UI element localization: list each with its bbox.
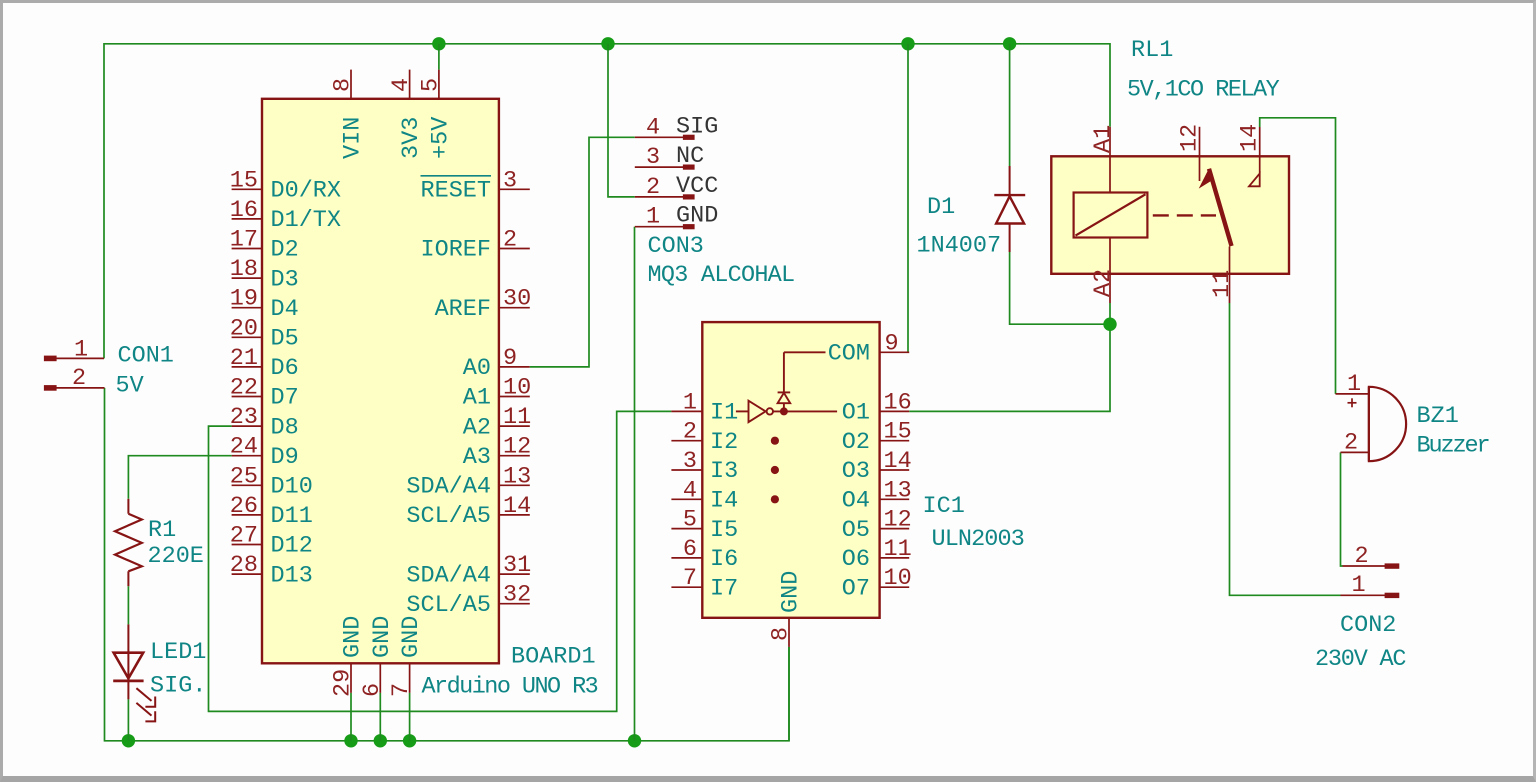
svg-text:RL1: RL1 bbox=[1131, 37, 1173, 64]
svg-text:23: 23 bbox=[230, 404, 258, 431]
BOARD1 pin 14 SCL/A5 bbox=[406, 493, 531, 530]
BOARD1 pin 19 D4 bbox=[230, 286, 299, 323]
svg-text:O5: O5 bbox=[842, 517, 870, 544]
svg-text:BZ1: BZ1 bbox=[1417, 403, 1459, 430]
wire GND pins 29/6/7 to bus bbox=[350, 693, 352, 741]
wire 5V bus to CON3 VCC bbox=[608, 44, 635, 197]
svg-text:GND: GND bbox=[340, 616, 367, 658]
svg-text:CON2: CON2 bbox=[1340, 612, 1396, 639]
relay RL1 pin A1 bbox=[1090, 125, 1117, 193]
junction bbox=[122, 734, 135, 747]
svg-text:6: 6 bbox=[359, 683, 386, 697]
svg-text:D0/RX: D0/RX bbox=[271, 178, 342, 205]
svg-text:2: 2 bbox=[1354, 543, 1368, 570]
IC1 pin 16 O1 bbox=[842, 389, 912, 426]
svg-text:LED1: LED1 bbox=[150, 639, 206, 666]
svg-text:12: 12 bbox=[1177, 124, 1204, 152]
svg-text:O3: O3 bbox=[842, 458, 870, 485]
svg-text:GND: GND bbox=[676, 203, 718, 230]
svg-text:15: 15 bbox=[884, 419, 912, 446]
wire relay pin 14 to buzzer BZ1 pin 1 bbox=[1260, 118, 1336, 394]
svg-text:D4: D4 bbox=[271, 296, 299, 323]
svg-text:Buzzer: Buzzer bbox=[1417, 433, 1489, 460]
IC1 pin 3 I3 bbox=[671, 448, 738, 485]
BOARD1 pin 12 A3 bbox=[463, 434, 531, 471]
svg-text:IOREF: IOREF bbox=[420, 237, 491, 264]
relay RL1 dashed actuator line bbox=[1147, 214, 1216, 216]
svg-text:1N4007: 1N4007 bbox=[917, 233, 1002, 260]
svg-text:AREF: AREF bbox=[435, 296, 491, 323]
svg-text:SIG: SIG bbox=[676, 113, 718, 140]
BOARD1 pin 27 D12 bbox=[230, 523, 313, 560]
svg-text:6: 6 bbox=[683, 536, 697, 563]
BOARD1 pin 9 A0 bbox=[463, 345, 530, 382]
svg-text:SIG.: SIG. bbox=[150, 673, 206, 700]
connector CON1 pin 1 bbox=[45, 337, 105, 364]
svg-text:+5V: +5V bbox=[427, 117, 454, 159]
svg-text:3: 3 bbox=[683, 448, 697, 475]
BOARD1 pin 28 D13 bbox=[230, 552, 313, 589]
svg-text:O2: O2 bbox=[842, 429, 870, 456]
svg-text:1: 1 bbox=[74, 337, 88, 364]
svg-text:GND: GND bbox=[778, 571, 805, 613]
LED LED1 SIG. bbox=[113, 624, 206, 721]
BOARD1 pin 15 D0/RX bbox=[230, 167, 341, 204]
wire D1 anode to coil node bbox=[1010, 252, 1110, 324]
connector CON2 pin 1 bbox=[1341, 572, 1399, 599]
BZ1 pin 1 + bbox=[1336, 371, 1369, 407]
junction bbox=[432, 37, 445, 50]
junction bbox=[344, 734, 357, 747]
BOARD1 pin 22 D7 bbox=[230, 375, 299, 412]
svg-text:31: 31 bbox=[503, 552, 531, 579]
svg-text:SDA/A4: SDA/A4 bbox=[406, 474, 491, 501]
svg-text:13: 13 bbox=[884, 477, 912, 504]
svg-text:15: 15 bbox=[230, 167, 258, 194]
connector CON3 pin 2 VCC bbox=[635, 173, 719, 201]
svg-text:11: 11 bbox=[503, 404, 531, 431]
+5V top bus wire bbox=[104, 44, 1110, 359]
BOARD1 pin 2 IOREF bbox=[420, 227, 529, 264]
BOARD1 pin 30 AREF bbox=[435, 286, 532, 323]
svg-text:RESET: RESET bbox=[420, 178, 491, 205]
IC1 pin 5 I5 bbox=[671, 507, 738, 544]
svg-text:18: 18 bbox=[230, 256, 258, 283]
BOARD1 pin 32 SCL/A5 bbox=[406, 582, 531, 619]
IC1 pin 4 I4 bbox=[671, 477, 738, 514]
connector CON3 pin 1 GND bbox=[635, 203, 719, 231]
svg-text:A0: A0 bbox=[463, 355, 491, 382]
IC1 internal driver symbol bbox=[736, 352, 837, 422]
GND bottom bus wire bbox=[105, 388, 790, 741]
svg-text:O6: O6 bbox=[842, 546, 870, 573]
svg-text:21: 21 bbox=[230, 345, 258, 372]
svg-text:5: 5 bbox=[417, 78, 444, 92]
junction bbox=[1003, 37, 1016, 50]
BOARD1 pin 16 D1/TX bbox=[230, 197, 341, 234]
svg-text:IC1: IC1 bbox=[923, 493, 965, 520]
BOARD1 pin 7 GND bbox=[388, 616, 425, 697]
wire 5V bus to D1 cathode bbox=[1009, 44, 1011, 166]
svg-text:1: 1 bbox=[1351, 572, 1365, 599]
wire A0 to CON3 SIG bbox=[530, 137, 635, 367]
svg-text:O7: O7 bbox=[842, 575, 870, 602]
svg-text:D13: D13 bbox=[271, 562, 313, 589]
BOARD1 pin 17 D2 bbox=[230, 227, 299, 264]
svg-text:D9: D9 bbox=[271, 444, 299, 471]
svg-text:MQ3 ALCOHAL: MQ3 ALCOHAL bbox=[648, 262, 795, 289]
relay RL1 body bbox=[1051, 156, 1289, 273]
svg-text:2: 2 bbox=[683, 419, 697, 446]
BOARD1 pin 13 SDA/A4 bbox=[406, 463, 531, 500]
svg-text:CON3: CON3 bbox=[648, 233, 704, 260]
svg-text:D10: D10 bbox=[271, 474, 313, 501]
relay RL1 coil bbox=[1074, 193, 1148, 238]
svg-text:27: 27 bbox=[230, 523, 258, 550]
svg-text:I4: I4 bbox=[710, 488, 738, 515]
IC1 pin 9 COM bbox=[828, 330, 910, 367]
svg-text:12: 12 bbox=[503, 434, 531, 461]
relay RL1 pin 14 contact bbox=[1237, 124, 1264, 187]
BOARD1 pin 8 VIN bbox=[330, 70, 367, 159]
svg-text:14: 14 bbox=[884, 448, 912, 475]
wire CON3 GND to bus bbox=[634, 227, 636, 741]
svg-text:19: 19 bbox=[230, 286, 258, 313]
svg-text:10: 10 bbox=[884, 565, 912, 592]
svg-text:17: 17 bbox=[230, 227, 258, 254]
wire relay pin 11 to CON2 pin 1 bbox=[1230, 303, 1341, 595]
svg-text:D3: D3 bbox=[271, 266, 299, 293]
BOARD1 pin 31 SDA/A4 bbox=[406, 552, 531, 589]
svg-text:2: 2 bbox=[646, 174, 660, 201]
svg-text:5V: 5V bbox=[116, 373, 144, 400]
BOARD1 pin 25 D10 bbox=[230, 463, 313, 500]
IC1 pin 2 I2 bbox=[671, 419, 738, 456]
svg-text:4: 4 bbox=[683, 477, 697, 504]
svg-text:24: 24 bbox=[230, 434, 258, 461]
relay RL1 switch arm bbox=[1200, 169, 1231, 246]
svg-text:SDA/A4: SDA/A4 bbox=[406, 562, 491, 589]
svg-text:12: 12 bbox=[884, 507, 912, 534]
svg-text:NC: NC bbox=[676, 143, 704, 170]
junction bbox=[374, 734, 387, 747]
svg-text:ULN2003: ULN2003 bbox=[932, 526, 1024, 553]
wire relay A2 to node bbox=[1109, 303, 1111, 324]
wire ULN2003 O1 to relay A2 bbox=[909, 324, 1110, 411]
resistor R1 220E bbox=[115, 499, 204, 587]
IC1 pin 15 O2 bbox=[842, 419, 912, 456]
junction bbox=[901, 37, 914, 50]
junction bbox=[628, 734, 641, 747]
svg-text:Arduino UNO R3: Arduino UNO R3 bbox=[422, 674, 598, 701]
svg-text:7: 7 bbox=[388, 683, 415, 697]
svg-text:1: 1 bbox=[683, 389, 697, 416]
svg-text:2: 2 bbox=[503, 227, 517, 254]
svg-text:3V3: 3V3 bbox=[398, 117, 425, 159]
BOARD1 pin 24 D9 bbox=[230, 434, 299, 471]
svg-text:I7: I7 bbox=[710, 575, 738, 602]
wire LED1 cathode to GND bus bbox=[127, 699, 129, 740]
svg-text:A3: A3 bbox=[463, 444, 491, 471]
svg-text:SCL/A5: SCL/A5 bbox=[406, 592, 491, 619]
svg-text:I1: I1 bbox=[710, 400, 738, 427]
svg-text:3: 3 bbox=[503, 167, 517, 194]
junction bbox=[403, 734, 416, 747]
svg-text:11: 11 bbox=[1209, 270, 1236, 298]
svg-text:GND: GND bbox=[369, 616, 396, 658]
svg-text:5: 5 bbox=[683, 507, 697, 534]
svg-text:20: 20 bbox=[230, 315, 258, 342]
svg-text:VCC: VCC bbox=[676, 173, 718, 200]
svg-text:COM: COM bbox=[828, 341, 870, 368]
svg-text:D12: D12 bbox=[271, 533, 313, 560]
svg-text:14: 14 bbox=[503, 493, 531, 520]
BOARD1 pin 21 D6 bbox=[230, 345, 299, 382]
svg-text:10: 10 bbox=[503, 375, 531, 402]
junction bbox=[1103, 318, 1116, 331]
connector CON3 pin 4 SIG bbox=[635, 113, 719, 141]
BOARD1 pin 18 D3 bbox=[230, 256, 299, 293]
IC U1 ULN2003 IC1 body bbox=[702, 322, 879, 618]
IC1 pin 14 O3 bbox=[842, 448, 912, 485]
svg-text:D8: D8 bbox=[271, 414, 299, 441]
wire R1 to LED1 bbox=[127, 586, 129, 624]
junction bbox=[601, 37, 614, 50]
connector CON1 pin 2 bbox=[45, 365, 105, 392]
wire ULN2003 GND pin 8 to bus bbox=[788, 647, 790, 741]
svg-text:D11: D11 bbox=[271, 503, 313, 530]
svg-text:A1: A1 bbox=[1090, 125, 1117, 153]
svg-text:SCL/A5: SCL/A5 bbox=[406, 503, 491, 530]
BOARD1 pin 26 D11 bbox=[230, 493, 313, 530]
svg-text:CON1: CON1 bbox=[118, 343, 174, 370]
wire BZ1 pin 2 to CON2 pin 2 bbox=[1341, 452, 1343, 566]
svg-text:4: 4 bbox=[646, 114, 660, 141]
svg-text:I3: I3 bbox=[710, 458, 738, 485]
svg-text:D6: D6 bbox=[271, 355, 299, 382]
relay RL1 pin A2 bbox=[1090, 238, 1117, 304]
svg-text:VIN: VIN bbox=[340, 117, 367, 159]
relay RL1 pin 12 common contact bbox=[1177, 124, 1204, 181]
svg-text:9: 9 bbox=[503, 345, 517, 372]
svg-text:1: 1 bbox=[1347, 371, 1361, 398]
svg-text:I6: I6 bbox=[710, 546, 738, 573]
svg-text:25: 25 bbox=[230, 463, 258, 490]
svg-text:GND: GND bbox=[398, 616, 425, 658]
connector CON3 pin 3 NC bbox=[635, 143, 704, 171]
IC1 pin 8 GND bbox=[768, 571, 805, 647]
IC1 pin 7 I7 bbox=[671, 565, 738, 602]
svg-text:R1: R1 bbox=[148, 517, 176, 544]
Arduino UNO R3 board BOARD1 body bbox=[262, 99, 499, 664]
svg-text:8: 8 bbox=[768, 627, 795, 641]
buzzer BZ1 bbox=[1369, 387, 1406, 461]
BOARD1 pin 20 D5 bbox=[230, 315, 299, 352]
svg-text:5V,1CO RELAY: 5V,1CO RELAY bbox=[1127, 77, 1280, 104]
svg-text:30: 30 bbox=[503, 286, 531, 313]
svg-text:O4: O4 bbox=[842, 488, 870, 515]
svg-text:A1: A1 bbox=[463, 385, 491, 412]
svg-text:230V AC: 230V AC bbox=[1315, 646, 1406, 673]
IC1 pin 11 O6 bbox=[842, 536, 912, 573]
IC1 internal continuation dots bbox=[771, 437, 779, 445]
svg-text:26: 26 bbox=[230, 493, 258, 520]
svg-text:8: 8 bbox=[330, 78, 357, 92]
svg-text:11: 11 bbox=[884, 536, 912, 563]
svg-text:1: 1 bbox=[646, 204, 660, 231]
connector CON2 pin 2 bbox=[1343, 543, 1399, 570]
IC1 pin 13 O4 bbox=[842, 477, 912, 514]
IC1 pin 10 O7 bbox=[842, 565, 912, 602]
BOARD1 pin 5 +5V bbox=[417, 70, 454, 159]
IC1 pin 12 O5 bbox=[842, 507, 912, 544]
svg-text:3: 3 bbox=[646, 144, 660, 171]
svg-text:14: 14 bbox=[1237, 124, 1264, 152]
svg-text:7: 7 bbox=[683, 565, 697, 592]
svg-text:13: 13 bbox=[503, 463, 531, 490]
BOARD1 pin 3 RESET bbox=[420, 167, 529, 204]
svg-text:32: 32 bbox=[503, 582, 531, 609]
BOARD1 pin 6 GND bbox=[359, 616, 396, 697]
BOARD1 pin 10 A1 bbox=[463, 375, 531, 412]
svg-text:D1/TX: D1/TX bbox=[271, 207, 342, 234]
svg-text:22: 22 bbox=[230, 375, 258, 402]
svg-text:BOARD1: BOARD1 bbox=[511, 644, 596, 671]
wire D8 to ULN2003 I1 bbox=[209, 411, 672, 711]
svg-text:2: 2 bbox=[1344, 430, 1358, 457]
svg-text:29: 29 bbox=[330, 669, 357, 697]
diode D1 1N4007 bbox=[917, 166, 1026, 260]
svg-text:D1: D1 bbox=[927, 194, 955, 221]
svg-text:O1: O1 bbox=[842, 400, 870, 427]
svg-text:28: 28 bbox=[230, 552, 258, 579]
svg-text:I5: I5 bbox=[710, 517, 738, 544]
svg-text:16: 16 bbox=[884, 389, 912, 416]
svg-text:D7: D7 bbox=[271, 385, 299, 412]
BOARD1 pin 11 A2 bbox=[463, 404, 531, 441]
svg-text:220E: 220E bbox=[148, 543, 204, 570]
wire +5V pin to bus bbox=[438, 44, 440, 70]
IC1 pin 6 I6 bbox=[671, 536, 738, 573]
wire ULN2003 COM to 5V bus bbox=[907, 44, 909, 353]
svg-text:A2: A2 bbox=[463, 414, 491, 441]
svg-text:9: 9 bbox=[885, 330, 899, 357]
BOARD1 pin 23 D8 bbox=[230, 404, 299, 441]
svg-text:D5: D5 bbox=[271, 326, 299, 353]
svg-text:16: 16 bbox=[230, 197, 258, 224]
svg-text:A2: A2 bbox=[1090, 269, 1117, 297]
wire D9 to R1 bbox=[128, 456, 231, 499]
svg-text:I2: I2 bbox=[710, 429, 738, 456]
svg-text:4: 4 bbox=[388, 78, 415, 92]
svg-text:2: 2 bbox=[72, 365, 86, 392]
BOARD1 pin 29 GND bbox=[330, 616, 367, 697]
BOARD1 pin 4 3V3 bbox=[388, 70, 425, 159]
svg-text:D2: D2 bbox=[271, 237, 299, 264]
BZ1 pin 2 bbox=[1341, 430, 1369, 457]
IC1 pin 1 I1 bbox=[671, 389, 738, 426]
relay RL1 pin 11 bbox=[1209, 247, 1236, 304]
